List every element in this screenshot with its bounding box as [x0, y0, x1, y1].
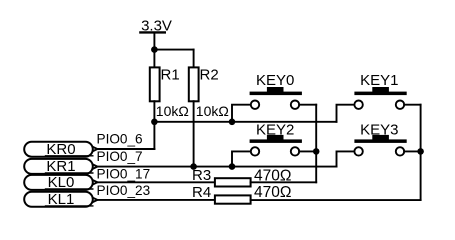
wire KEY0 pin 2 to column 1: [299, 104, 316, 106]
wire column 1 vertical: [315, 105, 317, 183]
resistor R3 body: [215, 178, 251, 186]
pushbutton KEY3 actuator bar: [354, 139, 406, 143]
wire R4 right to column 2: [251, 199, 421, 201]
pushbutton KEY0 actuator bar: [250, 92, 302, 96]
wire elbow KR0 rail to KEY0 pin 1: [232, 105, 251, 122]
pushbutton KEY1 cap: [372, 87, 389, 92]
port KL0 text underline: [46, 188, 93, 190]
port KR0 outline: [24, 142, 93, 157]
port KL0 outline: [24, 175, 93, 190]
svg-text:R4: R4: [192, 184, 211, 201]
junction KEY2 branch on KR1 rail: [229, 163, 236, 170]
port KR1 tab: [93, 164, 98, 168]
port KR0 tab: [93, 147, 98, 151]
port KR1 text underline: [46, 172, 93, 174]
pushbutton KEY2 contact pin 2: [291, 147, 299, 155]
pushbutton KEY0 contact pin 2: [291, 101, 299, 109]
svg-text:470Ω: 470Ω: [254, 184, 291, 201]
junction KEY0 branch on KR0 rail: [229, 119, 236, 126]
wire elbow KR0 rail to KEY1 pin 1: [337, 105, 355, 122]
pushbutton KEY1 contact pin 1: [354, 101, 362, 109]
svg-text:PIO0_6: PIO0_6: [97, 132, 143, 147]
port KL1 tab: [93, 198, 98, 202]
wire elbow KR1 rail to KEY2 pin 1: [232, 151, 251, 166]
wire 3.3V stem down to R1 top: [153, 33, 155, 67]
wire R2 bottom down to KR1 net: [193, 101, 195, 166]
pushbutton KEY1 actuator bar: [354, 92, 406, 96]
svg-text:KEY1: KEY1: [360, 72, 398, 89]
junction R1 to KR0 rail: [151, 119, 158, 126]
port KR1 outline: [24, 159, 93, 174]
wire R2 top stem: [193, 50, 195, 68]
port KR0 text underline: [46, 155, 93, 157]
pushbutton KEY0 cap: [267, 87, 284, 92]
wire KEY2 pin 2 to column 1: [299, 150, 316, 152]
wire column 2 vertical: [420, 105, 422, 200]
pushbutton KEY0 contact pin 1: [251, 101, 259, 109]
wire R1 bottom down to KR0 net: [153, 101, 155, 149]
wire KR1 rail horizontal: [97, 166, 336, 168]
resistor R1 body: [150, 67, 160, 101]
junction power split: [151, 46, 158, 53]
pushbutton KEY1 contact pin 2: [396, 101, 404, 109]
svg-text:PIO0_7: PIO0_7: [97, 149, 143, 164]
wire power split horizontal to R2: [154, 49, 193, 51]
svg-text:10kΩ: 10kΩ: [196, 103, 229, 119]
port KL1 text underline: [46, 205, 93, 207]
junction KEY3 pin 2 on column 2: [417, 148, 424, 155]
pushbutton KEY2 cap: [267, 135, 284, 140]
svg-text:R2: R2: [200, 66, 219, 83]
pushbutton KEY2 contact pin 1: [251, 147, 259, 155]
junction KEY2 pin 2 on column 1: [313, 148, 320, 155]
svg-text:KEY0: KEY0: [256, 72, 294, 89]
wire KL1 port to R4 left: [97, 199, 214, 201]
svg-text:PIO0_23: PIO0_23: [97, 183, 151, 198]
port KL1 outline: [24, 192, 93, 207]
pushbutton KEY3 cap: [372, 135, 389, 140]
wire elbow KR1 rail to KEY3 pin 1: [337, 151, 355, 166]
wire KR0 port to R1 branch: [97, 148, 154, 150]
port KL0 tab: [93, 180, 98, 184]
junction R2 to KR1 rail: [190, 163, 197, 170]
power bar symbol 3.3V: [140, 31, 164, 33]
wire KL0 port to R3 left: [97, 181, 214, 183]
resistor R2 body: [189, 67, 199, 101]
resistor R4 body: [215, 195, 251, 203]
pushbutton KEY3 contact pin 2: [396, 147, 404, 155]
svg-text:R3: R3: [192, 167, 211, 184]
wire KR0 rail horizontal: [154, 121, 336, 123]
svg-text:PIO0_17: PIO0_17: [97, 166, 151, 181]
pushbutton KEY3 contact pin 1: [354, 147, 362, 155]
wire KEY3 pin 2 to column 2: [404, 150, 420, 152]
wire KEY1 pin 2 to column 2: [404, 104, 420, 106]
svg-text:10kΩ: 10kΩ: [156, 103, 189, 119]
pushbutton KEY2 actuator bar: [250, 139, 302, 143]
svg-text:R1: R1: [161, 66, 180, 83]
wire R3 right to column 1: [251, 181, 317, 183]
